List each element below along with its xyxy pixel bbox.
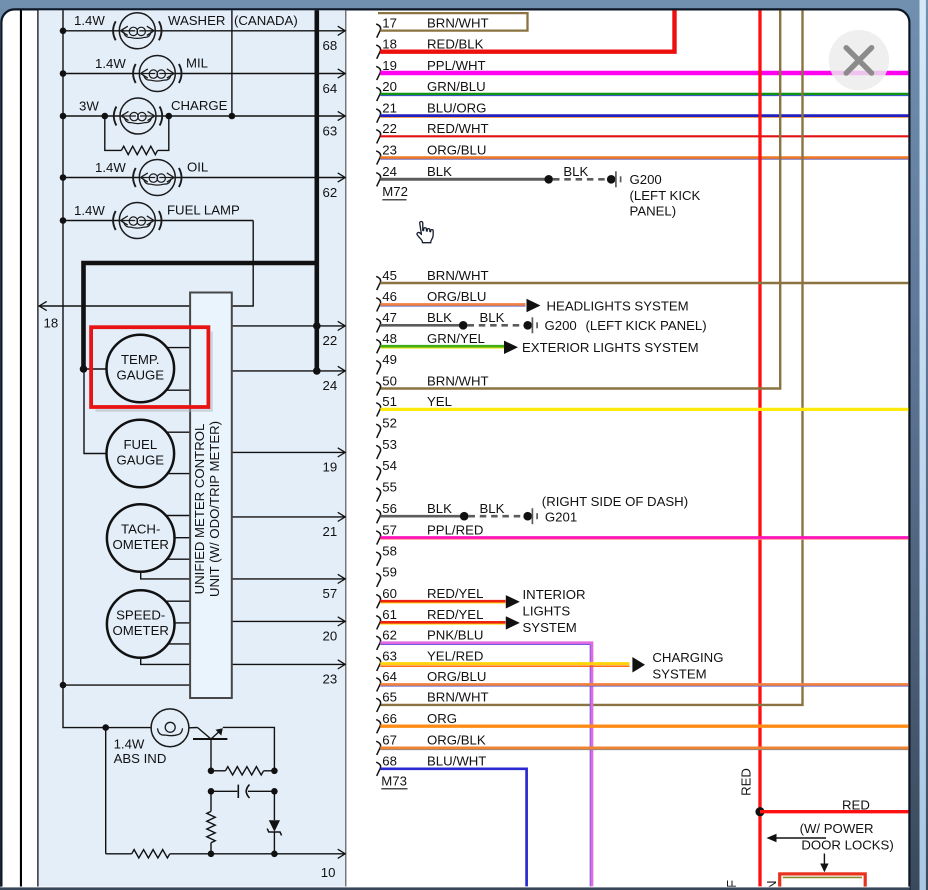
svg-text:DOOR LOCKS): DOOR LOCKS) (801, 837, 893, 852)
node: abs branch junction (102, 724, 109, 731)
svg-text:51: 51 (382, 394, 397, 409)
svg-text:HEADLIGHTS SYSTEM: HEADLIGHTS SYSTEM (547, 298, 689, 313)
node: bus ground junction (60, 682, 67, 689)
node: connector M72 pin 19 (376, 66, 380, 80)
wire 57 PPL/RED (380, 538, 908, 540)
wire: left branch drop (105, 728, 107, 854)
node: D1 bottom (271, 851, 278, 858)
svg-text:59: 59 (382, 565, 397, 580)
svg-text:47: 47 (382, 310, 397, 325)
svg-text:BLU/ORG: BLU/ORG (427, 100, 486, 115)
node: R1 right (271, 768, 278, 775)
node: connector M72 pin 17 (376, 24, 380, 38)
svg-text:CHARGE: CHARGE (171, 98, 228, 113)
wire: FUEL GAUGE stub (168, 473, 191, 475)
svg-text:ORG/BLU: ORG/BLU (427, 289, 486, 304)
svg-text:3W: 3W (79, 98, 99, 113)
svg-text:GAUGE: GAUGE (116, 368, 164, 383)
svg-text:RED: RED (739, 768, 754, 796)
svg-text:M72: M72 (382, 184, 408, 199)
wire 24 BLK (380, 178, 548, 181)
svg-text:RED: RED (842, 797, 870, 812)
svg-text:GRN/BLU: GRN/BLU (427, 79, 486, 94)
wire: pin 10 row (170, 853, 345, 855)
svg-text:YEL/RED: YEL/RED (427, 649, 483, 664)
lamp FUEL LAMP 1.4W (113, 203, 161, 239)
svg-text:FUEL: FUEL (123, 437, 157, 452)
node: connector M73 pin 60 (376, 595, 380, 609)
node: connector M73 pin 55 (376, 488, 380, 502)
wire: RED branch to right (760, 810, 909, 813)
svg-text:PNK/BLU: PNK/BLU (427, 628, 483, 643)
node: C1 right (271, 788, 278, 795)
wire 19 PPL/WHT (380, 71, 908, 75)
svg-text:GRN/YEL: GRN/YEL (427, 331, 485, 346)
wire: WASHER lamp row (63, 30, 345, 32)
svg-text:(CANADA): (CANADA) (234, 13, 298, 28)
instrument cluster panel (39, 10, 346, 886)
wire 17 BRN/WHT (378, 13, 528, 31)
node: G200 splice 47 (459, 321, 468, 330)
svg-text:OMETER: OMETER (112, 623, 168, 638)
svg-text:ORG/BLU: ORG/BLU (427, 142, 486, 157)
svg-text:(W/ POWER: (W/ POWER (800, 821, 874, 836)
svg-text:49: 49 (382, 352, 397, 367)
node: bus junction CHARGE (60, 113, 67, 120)
resistor R3 (pin 10 series) (106, 853, 132, 855)
node: bus junction WASHER (60, 28, 67, 35)
gauge FUEL GAUGE (107, 420, 175, 488)
wire: FUEL LAMP lamp row (63, 220, 253, 222)
svg-text:GAUGE: GAUGE (116, 453, 164, 468)
svg-text:23: 23 (323, 672, 338, 687)
lamp MIL 1.4W (133, 56, 181, 92)
svg-text:TACH-: TACH- (121, 522, 160, 537)
svg-text:BLK: BLK (563, 164, 588, 179)
wire: (CANADA) branch (231, 10, 233, 116)
svg-text:48: 48 (382, 331, 397, 346)
svg-text:BLU/WHT: BLU/WHT (427, 754, 486, 769)
node: temp gauge feed (80, 365, 88, 373)
svg-text:BLK: BLK (480, 501, 505, 516)
wire 18 RED/BLK (380, 10, 674, 51)
svg-text:21: 21 (382, 100, 397, 115)
node: G201 splice (460, 512, 469, 521)
wire: TACHOMETER stub (166, 515, 190, 517)
svg-text:1.4W: 1.4W (95, 56, 126, 71)
wire: TEMP. GAUGE stub (166, 389, 190, 391)
wire: MIL lamp row (63, 73, 345, 75)
wire: abs lamp to transistor (189, 727, 198, 729)
svg-text:21: 21 (323, 524, 338, 539)
svg-text:64: 64 (323, 81, 338, 96)
node: bus junction FUEL LAMP (60, 217, 67, 224)
svg-text:RED/BLK: RED/BLK (427, 37, 484, 52)
wire: cluster ground link (63, 684, 190, 686)
wire: G200 pigtail (dashed) (553, 178, 607, 181)
svg-text:UNIFIED METER CONTROL: UNIFIED METER CONTROL (192, 424, 207, 595)
svg-text:19: 19 (382, 58, 397, 73)
svg-text:OMETER: OMETER (112, 537, 168, 552)
svg-text:55: 55 (382, 479, 397, 494)
cursor: hand pointer (417, 222, 433, 243)
wire: TACHOMETER stub (167, 558, 190, 560)
svg-text:17: 17 (382, 15, 397, 30)
wire: BRN/WHT vertical (pin 50) (380, 10, 780, 388)
wire: left edge bus 1 (20, 10, 22, 886)
lamp OIL 1.4W (133, 160, 181, 196)
wire: control unit pin 19 row (232, 451, 345, 453)
wire: temp gauge left lead (84, 368, 107, 370)
wire: left edge bus 2 (37, 10, 38, 886)
wire: fuel lamp drop (232, 221, 253, 307)
svg-text:(LEFT KICK PANEL): (LEFT KICK PANEL) (586, 318, 707, 333)
node: pin24 junction (313, 367, 321, 375)
svg-text:BLK: BLK (427, 501, 452, 516)
svg-text:1.4W: 1.4W (95, 160, 126, 175)
svg-text:18: 18 (382, 37, 397, 52)
wire 63 YEL/RED (380, 665, 629, 667)
svg-text:RED/WHT: RED/WHT (427, 121, 489, 136)
node: connector M73 pin 50 (376, 382, 380, 396)
svg-text:SPEED-: SPEED- (116, 608, 165, 623)
svg-text:RED/YEL: RED/YEL (427, 607, 483, 622)
node: connector M73 pin 49 (376, 361, 380, 375)
wire 56 BLK (380, 515, 464, 518)
svg-text:G200: G200 (545, 318, 577, 333)
svg-text:(RIGHT SIDE OF DASH): (RIGHT SIDE OF DASH) (542, 494, 688, 509)
node: connector M73 pin 65 (376, 698, 380, 712)
svg-text:ORG/BLU: ORG/BLU (427, 669, 486, 684)
wire 62 PNK/BLU (380, 644, 590, 886)
page bottom seam (0, 886, 909, 889)
component: power door lock unit (partial) (780, 874, 866, 890)
svg-text:54: 54 (382, 458, 397, 473)
bottom toolbar strip (0, 887, 910, 890)
wire 20 GRN/BLU (380, 95, 908, 97)
wire 21 BLU/ORG (380, 116, 908, 118)
wire 68 BLU/WHT (380, 769, 526, 887)
wire 45 BRN/WHT (380, 282, 908, 284)
svg-text:M73: M73 (381, 773, 407, 788)
node: connector M73 pin 62 (376, 636, 380, 650)
node: connector M73 pin 68 (376, 762, 380, 776)
svg-text:57: 57 (382, 522, 397, 537)
wire 64 ORG/BLU (380, 685, 908, 687)
wire: collector lead (223, 727, 275, 770)
resistor R2 (base pulldown) (210, 791, 212, 811)
wire 46 ORG/BLU (380, 305, 525, 307)
lamp WASHER 1.4W (113, 13, 161, 49)
node: connector M72 pin 20 (376, 87, 380, 101)
gauge TACHOMETER (107, 504, 175, 572)
node: connector M73 pin 47 (376, 319, 380, 333)
wire: SPEEDOMETER stub (168, 643, 190, 645)
wire: SPEEDOMETER stub (166, 600, 190, 602)
wire: control unit pin 24 row (232, 370, 345, 372)
svg-text:BRN/WHT: BRN/WHT (427, 268, 489, 283)
wire: FUEL GAUGE stub (167, 431, 191, 433)
svg-text:63: 63 (382, 649, 397, 664)
node: connector M72 pin 21 (376, 109, 380, 123)
node: pin22 crossing (313, 322, 321, 330)
node: connector M73 pin 59 (376, 573, 380, 587)
node: charge right (166, 113, 173, 120)
highlight: TEMP GAUGE selection box (91, 327, 208, 407)
wire 22 RED/WHT (380, 135, 908, 137)
svg-text:CHARGING: CHARGING (652, 650, 723, 665)
svg-text:1.4W: 1.4W (114, 737, 145, 752)
svg-text:62: 62 (382, 628, 397, 643)
svg-text:65: 65 (382, 690, 397, 705)
node: connector M72 pin 24 (376, 173, 380, 187)
svg-text:46: 46 (382, 289, 397, 304)
wire: control unit pin 23 row (232, 663, 345, 665)
svg-text:67: 67 (382, 733, 397, 748)
svg-text:BLK: BLK (480, 310, 505, 325)
ground G200 (row 47) (523, 321, 532, 330)
svg-text:1.4W: 1.4W (74, 13, 105, 28)
wire 66 ORG (380, 725, 908, 728)
node: connector M73 pin 51 (376, 403, 380, 417)
node: bus junction OIL (60, 174, 67, 181)
svg-text:RED/YEL: RED/YEL (427, 586, 483, 601)
wire 51 YEL (380, 408, 908, 411)
svg-text:INTERIOR: INTERIOR (523, 587, 586, 602)
svg-text:PPL/RED: PPL/RED (427, 522, 483, 537)
node: connector M72 pin 18 (376, 45, 380, 59)
svg-text:61: 61 (382, 607, 397, 622)
wire: TACHOMETER stub (175, 537, 191, 539)
node: connector M73 pin 52 (376, 424, 380, 438)
node: connector M73 pin 64 (376, 678, 380, 692)
node: connector M73 pin 57 (376, 531, 380, 545)
svg-text:BRN/WHT: BRN/WHT (427, 15, 489, 30)
node: R1 left (208, 768, 215, 775)
svg-text:52: 52 (382, 416, 397, 431)
node: RED trunk tap (755, 807, 764, 816)
svg-text:57: 57 (323, 586, 338, 601)
svg-text:50: 50 (382, 373, 397, 388)
svg-text:63: 63 (323, 123, 338, 138)
svg-text:G200: G200 (630, 172, 662, 187)
resistor: charge shunt (121, 146, 157, 154)
wire: fuel gauge left lead (84, 369, 107, 454)
transistor Q1 (193, 728, 227, 740)
svg-text:(LEFT KICK: (LEFT KICK (630, 188, 701, 203)
svg-text:20: 20 (323, 629, 338, 644)
wire: SPEEDOMETER stub (175, 622, 191, 624)
svg-text:56: 56 (382, 501, 397, 516)
wire: BRN/WHT vertical (pin 65) (380, 10, 802, 705)
wire: base drop (210, 739, 212, 771)
node: connector M73 pin 45 (376, 276, 380, 290)
svg-text:68: 68 (323, 38, 338, 53)
gauge TEMP. GAUGE (107, 335, 175, 403)
wire 23 ORG/BLU (380, 158, 908, 160)
wire: callout arrow left (769, 837, 826, 839)
node: C1 left (208, 788, 215, 795)
wire: control unit pin 21 row (232, 516, 345, 518)
op-amp U1: unified meter control unit (190, 293, 232, 699)
node: connector M72 pin 22 (376, 130, 380, 144)
wire: OIL lamp row (63, 177, 345, 179)
capacitor C1 (211, 790, 237, 792)
resistor R1 (feedback) (211, 770, 225, 772)
svg-text:WASHER: WASHER (168, 13, 225, 28)
svg-text:FUEL LAMP: FUEL LAMP (167, 203, 240, 218)
svg-text:60: 60 (382, 586, 397, 601)
scrollbar strip (920, 0, 926, 890)
svg-text:62: 62 (323, 185, 338, 200)
node: connector M73 pin 63 (376, 657, 380, 671)
svg-text:EXTERIOR LIGHTS SYSTEM: EXTERIOR LIGHTS SYSTEM (522, 340, 699, 355)
svg-text:OIL: OIL (187, 160, 208, 175)
svg-text:LIGHTS: LIGHTS (523, 604, 571, 619)
node: bus junction MIL (60, 70, 67, 77)
svg-text:64: 64 (382, 669, 397, 684)
svg-text:BLK: BLK (427, 164, 452, 179)
node: R2 bottom (208, 851, 215, 858)
svg-text:45: 45 (382, 268, 397, 283)
node: connector M73 pin 56 (376, 510, 380, 524)
svg-text:PANEL): PANEL) (630, 203, 677, 218)
diode D1 (zener) (273, 791, 275, 820)
svg-text:YEL: YEL (427, 394, 452, 409)
svg-text:19: 19 (323, 460, 338, 475)
lamp ABS IND 1.4W (151, 709, 189, 747)
node: connector M73 pin 58 (376, 552, 380, 566)
node: connector M73 pin 67 (376, 741, 380, 755)
node: canada-charge junction (229, 113, 236, 120)
close button (829, 30, 889, 90)
svg-text:68: 68 (382, 754, 397, 769)
node: connector M73 pin 48 (376, 340, 380, 354)
svg-text:TEMP.: TEMP. (121, 352, 160, 367)
wire 60 RED/YEL (380, 602, 505, 604)
wire: control unit pin 22 row (232, 325, 345, 327)
svg-text:ORG: ORG (427, 711, 457, 726)
node: connector M72 pin 23 (376, 151, 380, 165)
wire: cluster supply bus (63, 10, 151, 727)
svg-text:UNIT (W/ ODO/TRIP METER): UNIT (W/ ODO/TRIP METER) (207, 421, 222, 597)
svg-text:PPL/WHT: PPL/WHT (427, 58, 486, 73)
node: G200 splice (544, 175, 553, 184)
node: connector M73 pin 54 (376, 467, 380, 481)
svg-text:58: 58 (382, 544, 397, 559)
svg-text:1.4W: 1.4W (74, 203, 105, 218)
gauge SPEEDOMETER (107, 590, 175, 658)
ground G201 (523, 512, 532, 521)
svg-text:66: 66 (382, 711, 397, 726)
node: connector M73 pin 53 (376, 445, 380, 459)
svg-text:10: 10 (321, 865, 336, 880)
node: connector M73 pin 46 (376, 298, 380, 312)
svg-text:SYSTEM: SYSTEM (652, 667, 706, 682)
wire: tachometer bottom lead (141, 572, 190, 579)
node: charge left (102, 113, 109, 120)
lamp CHARGE 3W (114, 98, 162, 134)
node: connector M73 pin 61 (376, 616, 380, 630)
wire: thick feed (ILL ground) (84, 10, 317, 371)
svg-text:SYSTEM: SYSTEM (523, 620, 577, 635)
svg-text:G201: G201 (545, 510, 577, 525)
wire: control unit pin 57 row (232, 578, 345, 580)
svg-text:ABS IND: ABS IND (114, 751, 167, 766)
svg-text:MIL: MIL (186, 56, 208, 71)
svg-text:ORG/BLK: ORG/BLK (427, 733, 486, 748)
svg-text:22: 22 (382, 121, 397, 136)
svg-text:24: 24 (323, 378, 338, 393)
wire: speedometer bottom lead (141, 658, 190, 665)
wire: callout arrow down (823, 854, 825, 867)
ground G200 (607, 175, 616, 184)
wire: RED trunk vertical (758, 10, 761, 886)
wire: control unit pin 20 row (232, 620, 345, 622)
svg-text:BRN/WHT: BRN/WHT (427, 373, 489, 388)
svg-text:24: 24 (382, 164, 397, 179)
wire 61 RED/YEL (380, 623, 505, 625)
wire 48 GRN/YEL (380, 347, 504, 349)
wire: pin 18 lead (39, 305, 190, 307)
svg-text:BRN/WHT: BRN/WHT (427, 690, 489, 705)
svg-text:18: 18 (44, 316, 59, 331)
wire 67 ORG/BLK (380, 749, 908, 751)
wire 47 BLK (380, 324, 463, 327)
wire: CHARGE lamp row (63, 115, 345, 117)
wire: charge resistor branch (105, 116, 169, 150)
wire: TEMP. GAUGE stub (167, 347, 190, 349)
svg-text:20: 20 (382, 79, 397, 94)
svg-text:BLK: BLK (427, 310, 452, 325)
node: connector M73 pin 66 (376, 720, 380, 734)
svg-text:23: 23 (382, 142, 397, 157)
svg-text:53: 53 (382, 437, 397, 452)
svg-text:22: 22 (323, 333, 338, 348)
